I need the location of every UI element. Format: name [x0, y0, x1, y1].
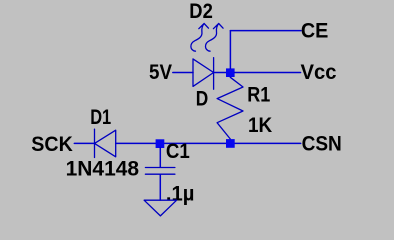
svg-text:.1µ: .1µ [166, 181, 195, 205]
diode D1 cathode bar [94, 129, 96, 157]
capacitor C1 top plate [145, 167, 175, 169]
LED D2 triangle [193, 59, 214, 87]
wire SCK to diode cathode [74, 142, 94, 144]
svg-text:SCK: SCK [31, 132, 73, 156]
LED D2 light arrow left [191, 24, 209, 52]
node junction at Vcc [226, 68, 235, 77]
svg-text:R1: R1 [247, 83, 270, 107]
svg-text:D1: D1 [90, 105, 111, 129]
wire capacitor to ground [159, 174, 161, 200]
wire LED cathode to node [214, 72, 227, 74]
node junction at R1 bottom [226, 139, 235, 148]
diode D1 triangle [95, 130, 116, 157]
svg-text:CSN: CSN [302, 131, 342, 155]
svg-text:D: D [196, 86, 209, 110]
resistor R1 zigzag [217, 77, 243, 139]
wire 5V to LED anode [173, 72, 193, 74]
svg-text:CE: CE [301, 19, 329, 43]
LED D2 light arrow right [205, 24, 223, 52]
ground symbol [144, 200, 177, 216]
wire CE horizontal [230, 30, 301, 32]
wire D1 to CSN (through C1 and R1 nodes) [116, 142, 301, 144]
svg-text:C1: C1 [166, 139, 190, 163]
svg-text:1N4148: 1N4148 [66, 156, 140, 180]
node junction at C1 [156, 139, 165, 148]
svg-text:Vcc: Vcc [301, 60, 337, 84]
capacitor C1 bottom plate [145, 173, 175, 175]
svg-text:1K: 1K [248, 113, 273, 137]
wire vertical node to CE corner [229, 31, 231, 69]
wire node to capacitor top plate [159, 148, 161, 168]
LED D2 cathode bar [213, 58, 215, 89]
wire Vcc horizontal [235, 72, 301, 74]
svg-text:5V: 5V [149, 60, 173, 84]
svg-text:D2: D2 [189, 0, 213, 23]
